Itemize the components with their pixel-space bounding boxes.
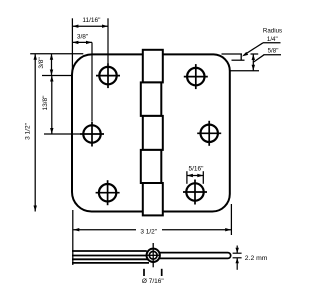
hole 1 top-left: [96, 63, 120, 88]
svg-text:3/8": 3/8": [38, 57, 45, 69]
diameter ticks: [143, 269, 145, 276]
svg-text:5/16": 5/16": [189, 166, 205, 173]
knuckle segment 1: [143, 50, 163, 83]
bottom dimension 3 1/2 extension left: [72, 210, 74, 265]
svg-text:Radius: Radius: [263, 27, 282, 34]
radius annotation top-right: extension of top edge: [222, 53, 243, 55]
hole 3 bottom-left: [96, 180, 120, 205]
hinge plate outline (plan view): [72, 54, 230, 211]
svg-text:Ø 7/16": Ø 7/16": [142, 278, 165, 285]
side view: pin inner circle: [149, 251, 157, 259]
knuckle segment 4: [141, 150, 162, 183]
svg-text:11/16": 11/16": [82, 17, 101, 24]
side view: vertical centerline: [152, 243, 154, 267]
dimension 5/16 (bottom-right hole): [186, 171, 188, 184]
extension line top-left horizontal y=53.7: [30, 53, 83, 55]
hole 6 bottom-right: [183, 180, 207, 205]
bottom dimension 3 1/2 extension right: [230, 204, 232, 235]
thickness dimension 2.2 mm: [233, 252, 242, 254]
svg-text:13/8": 13/8": [42, 95, 49, 111]
radius annotation: tick joining: [240, 54, 242, 60]
extension line left x=72.4 (top dims): [71, 18, 73, 75]
dimension 3/8 vertical left: [51, 54, 53, 76]
hole 4 top-right: [184, 64, 208, 89]
dimension 11/16: [72, 25, 108, 27]
side view: right leaf bar: [159, 253, 231, 259]
side view: knuckle outer circle: [147, 249, 160, 262]
side view: horizontal centerline: [147, 254, 161, 256]
extension line x=108 (11/16 right): [107, 18, 109, 63]
knuckle segment 2: [141, 82, 162, 116]
svg-text:5/8": 5/8": [268, 47, 279, 54]
dimension 3/8 top: [72, 41, 92, 43]
extension line x=92 (3/8 right): [91, 42, 93, 121]
extension line hole2 level y=134: [44, 133, 80, 135]
svg-text:3 1/2": 3 1/2": [140, 229, 157, 236]
svg-text:2.2 mm: 2.2 mm: [245, 255, 268, 262]
knuckle segment 3: [143, 116, 163, 150]
svg-text:3/8": 3/8": [77, 34, 89, 41]
knuckle segment 5: [143, 183, 163, 215]
extension line hole1 level y=75.5: [42, 75, 72, 77]
bottom dimension 3 1/2: [73, 229, 231, 231]
svg-text:1/4": 1/4": [267, 36, 278, 43]
radius annotation: step line: [232, 59, 245, 61]
side view: leaf lines left: [72, 251, 149, 263]
hole 5 mid-right: [197, 121, 221, 146]
dimension 3 1/2 vertical: [34, 54, 36, 212]
dimension 1 3/8 vertical left: [51, 76, 53, 135]
svg-text:3 1/2": 3 1/2": [25, 122, 32, 139]
dimension 5/8 vertical: [252, 54, 254, 71]
hole 2 mid-left: [80, 122, 104, 147]
extension line right-edge arc end y=70.7: [230, 70, 259, 72]
